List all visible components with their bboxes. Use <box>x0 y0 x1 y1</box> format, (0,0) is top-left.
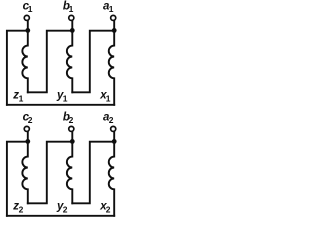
svg-text:2: 2 <box>109 115 114 125</box>
wire b1 terminal stub <box>71 21 73 31</box>
wire a2 terminal stub <box>113 132 115 142</box>
wire a1 terminal stub <box>113 21 115 31</box>
svg-text:2: 2 <box>63 205 68 215</box>
svg-text:2: 2 <box>69 115 74 125</box>
svg-text:2: 2 <box>19 205 24 215</box>
winding coil b1 (phase B) <box>67 30 72 92</box>
svg-text:1: 1 <box>106 94 111 104</box>
wire bottom bus 2 <box>7 215 114 217</box>
wire c1 terminal stub <box>27 21 29 31</box>
label y1 <box>56 90 68 104</box>
terminal c1 <box>24 15 29 20</box>
label x2 <box>99 201 111 215</box>
junction dot b1 <box>70 28 75 33</box>
svg-text:1: 1 <box>63 94 68 104</box>
junction dot a2 <box>112 139 117 144</box>
label a1 <box>103 1 114 15</box>
wire coil c1 bottom to b1 riser <box>28 31 73 93</box>
winding coil c1 (phase C) <box>22 30 27 92</box>
svg-text:2: 2 <box>106 205 111 215</box>
terminal a2 <box>111 126 116 131</box>
label b2 <box>63 112 74 126</box>
label z1 <box>12 90 23 104</box>
svg-text:2: 2 <box>28 115 33 125</box>
winding coil b2 (phase B) <box>67 141 72 203</box>
wire coil b1 bottom to a1 riser <box>72 31 114 93</box>
junction dot c2 <box>25 139 30 144</box>
wire c2 terminal stub <box>27 132 29 142</box>
svg-text:1: 1 <box>19 94 24 104</box>
wire b2 terminal stub <box>71 132 73 142</box>
wire c1 left leg to bottom bus <box>7 31 28 105</box>
winding coil c2 (phase C) <box>22 141 27 203</box>
terminal b1 <box>69 15 74 20</box>
svg-text:1: 1 <box>28 4 33 14</box>
junction dot a1 <box>112 28 117 33</box>
svg-text:1: 1 <box>109 4 114 14</box>
terminal b2 <box>69 126 74 131</box>
label b1 <box>63 1 74 15</box>
label z2 <box>12 201 23 215</box>
label c1 <box>23 1 33 15</box>
label c2 <box>23 112 33 126</box>
terminal a1 <box>111 15 116 20</box>
winding coil a2 (phase A) <box>109 141 114 215</box>
winding coil a1 (phase A) <box>109 30 114 104</box>
terminal c2 <box>24 126 29 131</box>
junction dot b2 <box>70 139 75 144</box>
wire coil c2 bottom to b2 riser <box>28 142 73 204</box>
label x1 <box>99 90 111 104</box>
wire c2 left leg to bottom bus <box>7 142 28 216</box>
svg-text:1: 1 <box>69 4 74 14</box>
junction dot c1 <box>25 28 30 33</box>
wire bottom bus 1 <box>7 104 114 106</box>
label a2 <box>103 112 114 126</box>
label y2 <box>56 201 68 215</box>
wire coil b2 bottom to a2 riser <box>72 142 114 204</box>
